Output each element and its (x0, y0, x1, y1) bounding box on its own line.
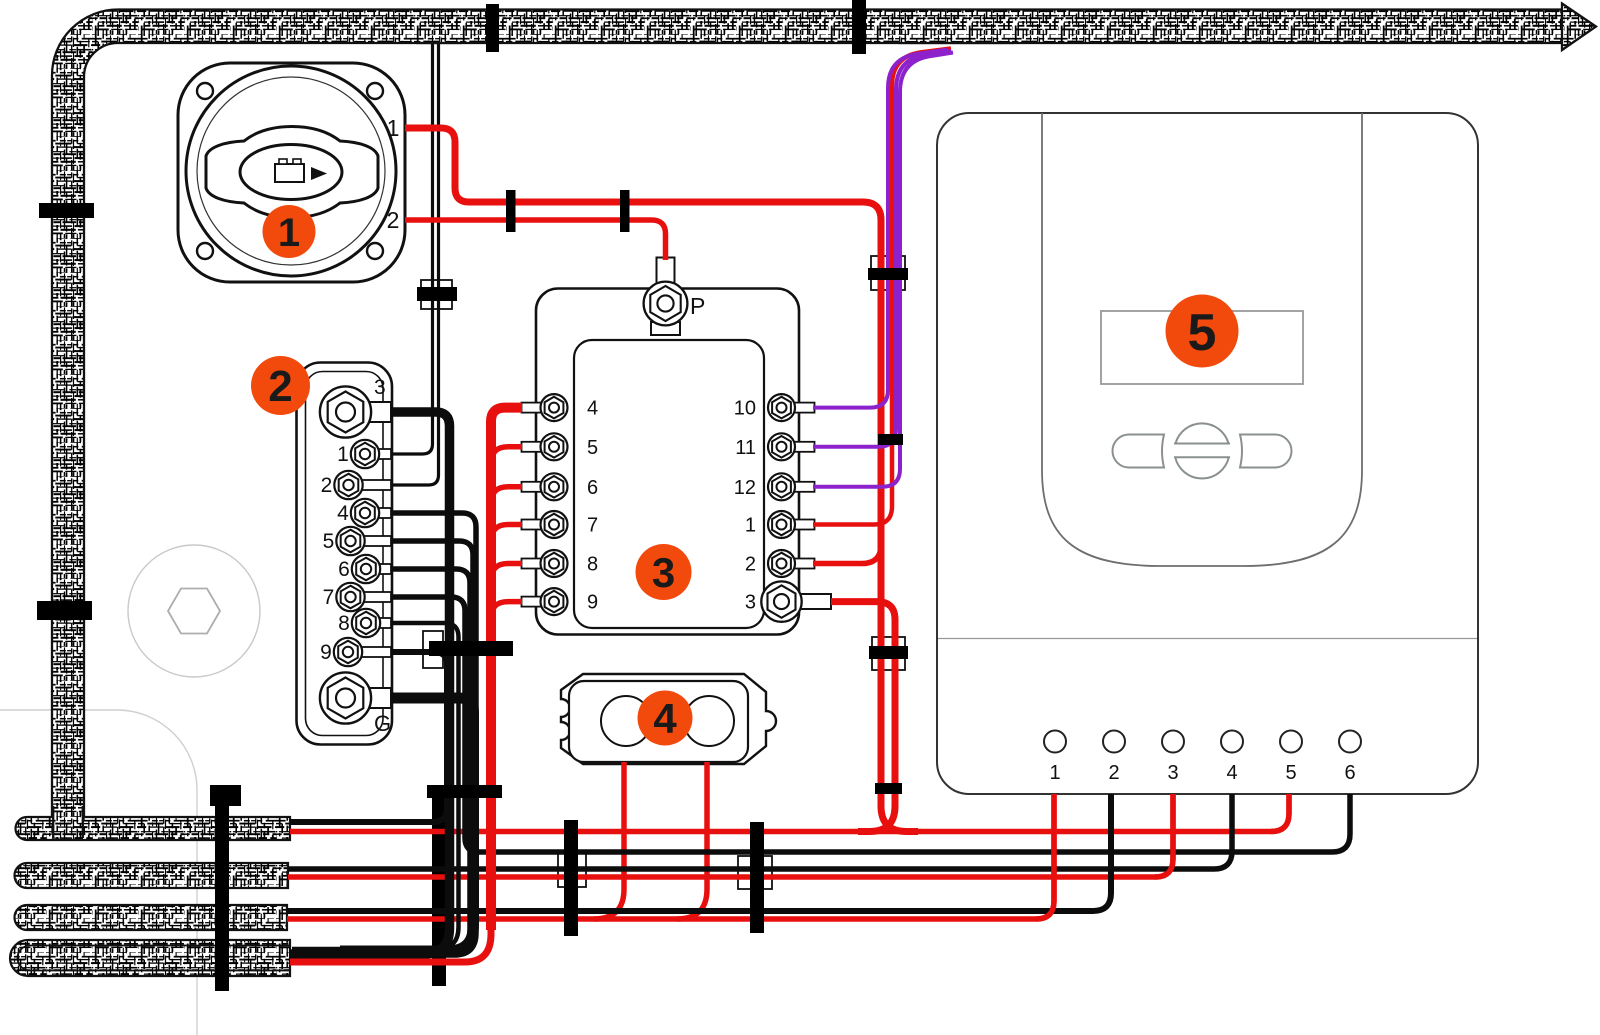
wire: cable2 red feed to panel terminal 3 (288, 794, 1173, 877)
bus terminal G (large) (360, 688, 391, 708)
clamp bar on black pair (417, 287, 457, 301)
panel terminal 4 (1221, 731, 1243, 753)
svg-text:4: 4 (653, 695, 677, 742)
armored cable patch over harness entries (900, 11, 1012, 42)
svg-text:9: 9 (320, 641, 332, 664)
fuse terminal 4 (left) (522, 403, 543, 413)
svg-text:4: 4 (1226, 762, 1237, 784)
svg-text:1: 1 (387, 115, 400, 141)
hatched cable 3 (15, 905, 288, 930)
svg-text:11: 11 (735, 437, 756, 459)
arrowhead of armored cable (1562, 4, 1596, 51)
battery icon on knob (275, 159, 327, 182)
svg-text:10: 10 (734, 398, 756, 420)
control panel (component 5) (937, 113, 1478, 794)
mounting hole (197, 243, 213, 259)
panel terminal 1 (1044, 731, 1066, 753)
fuse terminal 6 (left) (522, 482, 543, 492)
panel terminal 3 (1162, 731, 1184, 753)
svg-text:3: 3 (652, 549, 675, 596)
svg-text:7: 7 (587, 515, 598, 537)
panel face U-shape (1042, 113, 1362, 566)
wire: red trunk exit to hatched cable 4 (290, 906, 491, 962)
wire: red distribution trunk (491, 408, 522, 930)
junction of left armored run into cable 1 (53, 806, 83, 838)
tie on armored top cable (left) (486, 4, 499, 52)
connector block (component 4) (561, 674, 776, 764)
fuse terminal 9 (left) (522, 597, 543, 607)
wire: purple to fuse terminal 10 (813, 50, 948, 408)
cable tie stem across hatched cables (210, 785, 241, 806)
svg-text:4: 4 (587, 398, 598, 420)
wire: panel terminal 5 drop (1271, 794, 1289, 832)
wire: bus terminal 3 heavy cable to hatched cable 4 (290, 412, 450, 954)
panel terminal 5 (1280, 731, 1302, 753)
hatched cable 4 (double sheathed) (10, 940, 290, 976)
bus terminal 6 (376, 564, 391, 574)
svg-text:1: 1 (1049, 762, 1060, 784)
svg-text:2: 2 (321, 474, 333, 497)
wire: panel terminal 1 drop (1036, 794, 1054, 919)
wire: bus terminal 7 to panel terminal 6 (391, 597, 1350, 852)
svg-text:5: 5 (323, 530, 335, 553)
svg-text:1: 1 (278, 211, 300, 255)
svg-text:12: 12 (734, 477, 756, 499)
svg-text:2: 2 (1108, 762, 1119, 784)
faint corner guide line (0, 710, 197, 1035)
wire: red branch to fuse left terminal y563 (491, 564, 522, 581)
svg-text:3: 3 (374, 376, 386, 399)
connector circle left (601, 696, 651, 746)
armored battery cable: top bar with arrow and left vertical run (52, 4, 1596, 839)
mounting hole (367, 83, 383, 99)
svg-text:1: 1 (745, 515, 756, 537)
wire: red branch to fuse left terminal y486 (491, 487, 522, 504)
svg-text:P: P (690, 293, 705, 319)
battery switch (component 1) (178, 63, 405, 282)
bus terminal 1 (375, 449, 391, 459)
callout badge 3 (636, 544, 692, 600)
svg-text:9: 9 (587, 592, 598, 614)
tie on red pair (left) (506, 190, 516, 232)
svg-text:2: 2 (745, 554, 756, 576)
svg-text:4: 4 (337, 502, 349, 525)
panel terminal 2 (1103, 731, 1125, 753)
tie on armored left cable (39, 203, 94, 218)
fuse terminal 2 (right) (794, 559, 815, 569)
wire: purple to fuse terminal 12 (813, 53, 953, 487)
svg-text:1: 1 (337, 443, 349, 466)
clamp box bottom runs right (738, 856, 772, 889)
fuse block (component 3) (522, 258, 832, 635)
bus terminal 8 (376, 618, 391, 628)
wire: switch terminal 2 to fuse terminal P (405, 220, 666, 260)
wire: red branch to fuse left terminal y524 (491, 525, 522, 542)
bus terminal 3 (large) (360, 402, 391, 422)
svg-text:5: 5 (1285, 762, 1296, 784)
wire: bus terminal 4 to cable 4 bundle (292, 513, 476, 955)
bus terminal 4 (375, 508, 391, 518)
svg-text:6: 6 (1344, 762, 1355, 784)
ground bus bar (component 2) (297, 363, 393, 745)
svg-text:5: 5 (1188, 304, 1217, 362)
callout badge 4 (638, 691, 693, 746)
bus terminal 2 (359, 480, 392, 490)
svg-text:2: 2 (268, 362, 292, 411)
wire: bus terminal 5 to cable 4 bundle (292, 541, 473, 953)
fuse terminal 1 (right) (794, 520, 815, 530)
panel display window (1101, 311, 1303, 384)
clamp bar on black trunk (upper) (429, 641, 513, 656)
panel terminal 6 (1339, 731, 1361, 753)
clamp bar on harness bundle (upper) (868, 268, 908, 280)
svg-text:8: 8 (338, 612, 350, 635)
clamp bar on black trunk (lower) (427, 785, 502, 798)
callout badge 2 (251, 356, 310, 415)
svg-text:3: 3 (1167, 762, 1178, 784)
svg-text:2: 2 (387, 207, 400, 233)
clamp bar on red bundle (mid) (869, 646, 908, 659)
fuse terminal 7 (left) (522, 520, 543, 530)
fuse terminal 5 (left) (522, 442, 543, 452)
wire: red branch to fuse left terminal y601 (491, 602, 522, 619)
connector circle right (684, 696, 734, 746)
svg-text:6: 6 (338, 558, 350, 581)
svg-text:8: 8 (587, 554, 598, 576)
wire: fuse terminal 2 tap (813, 545, 881, 564)
callout badge 1 (263, 205, 316, 258)
clamp box on black pair (421, 280, 452, 309)
hatched cable 2 (15, 863, 289, 888)
switch outer ring (186, 66, 396, 276)
bus terminal 7 (361, 592, 392, 602)
tie on purple bundle (878, 434, 903, 445)
panel buttons (1113, 423, 1292, 478)
wire: cable1 red feed to panel terminal 5 (290, 794, 1289, 832)
wire: bus terminal 6 to cable 4 bundle (292, 569, 470, 951)
fuse terminal 8 (left) (522, 559, 543, 569)
svg-text:5: 5 (587, 437, 598, 459)
wire: bus terminal G heavy cable to hatched cable 4 (340, 698, 474, 951)
svg-text:7: 7 (323, 586, 335, 609)
clamp box bottom runs left (558, 851, 586, 887)
hatched cable 1 (16, 817, 291, 840)
wire: purple to fuse terminal 11 (813, 51, 951, 447)
wire: cable3 black to panel terminal 2 (287, 794, 1111, 911)
clamp box on black trunk (upper) (423, 631, 443, 668)
bus terminal 5 (361, 536, 392, 546)
mounting hole (197, 83, 213, 99)
panel divider line (938, 638, 1477, 640)
fuse terminal 10 (right) (794, 403, 815, 413)
svg-text:6: 6 (587, 477, 598, 499)
wire: red branch to fuse left terminal y446 (491, 447, 522, 464)
knob centre ellipse (240, 145, 342, 200)
mounting hole (367, 243, 383, 259)
tie on bottom runs (left) (564, 820, 578, 936)
wire: switch terminal 1 heavy feed (405, 128, 918, 832)
wire: cable2 black to panel terminal 4 (288, 794, 1232, 869)
bus terminal 9 (358, 647, 391, 657)
wire: bus terminal 9 to hatched cable 1 (290, 652, 447, 822)
tie on bottom runs (right) (750, 822, 764, 933)
wire: cable3 red feed to panel terminal 1 (287, 794, 1054, 919)
switch knob (scalloped) (206, 127, 378, 218)
fuse terminal 3 (right, large) (798, 594, 831, 609)
wire: fuse terminal 1 to armored harness (813, 49, 951, 525)
wire: panel terminal 3 drop (1155, 794, 1173, 877)
clamp box on harness bundle (upper) (871, 256, 905, 290)
wire: harness drop to bus terminal 1 (391, 40, 433, 454)
svg-text:3: 3 (745, 592, 756, 614)
wire: fuse terminal 3 heavy output (831, 602, 895, 832)
svg-text:G: G (374, 711, 391, 736)
cable tie stem at wire trunk (432, 792, 446, 986)
tie on armored top cable (right) (852, 0, 866, 54)
clamp box on red bundle (mid) (872, 637, 905, 670)
wire: connector block left lead (594, 762, 624, 919)
fuse terminal P (644, 258, 706, 336)
tie on red bundle (lower) (875, 783, 902, 794)
fuse terminal 11 (right) (794, 442, 815, 452)
faint guide circle with hex bolt (128, 545, 260, 677)
wire: connector block right lead (677, 762, 707, 919)
tie on armored left cable (lower) (37, 601, 92, 620)
fuse terminal 12 (right) (794, 482, 815, 492)
wire: bus terminal 8 to cable 4 bundle (292, 623, 459, 949)
wire: harness drop to bus terminal 2 (391, 40, 439, 485)
tie on red pair (right) (620, 190, 630, 232)
callout badge 5 (1166, 295, 1239, 368)
